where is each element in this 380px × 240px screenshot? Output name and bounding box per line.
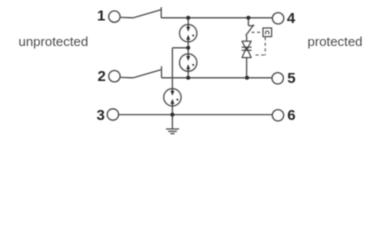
svg-text:unprotected: unprotected	[19, 34, 89, 49]
svg-text:1: 1	[97, 8, 105, 25]
svg-text:6: 6	[287, 107, 295, 124]
svg-text:protected: protected	[308, 34, 363, 49]
svg-text:5: 5	[287, 70, 295, 87]
svg-text:4: 4	[287, 10, 296, 27]
svg-text:3: 3	[97, 107, 105, 124]
svg-text:2: 2	[98, 68, 106, 85]
